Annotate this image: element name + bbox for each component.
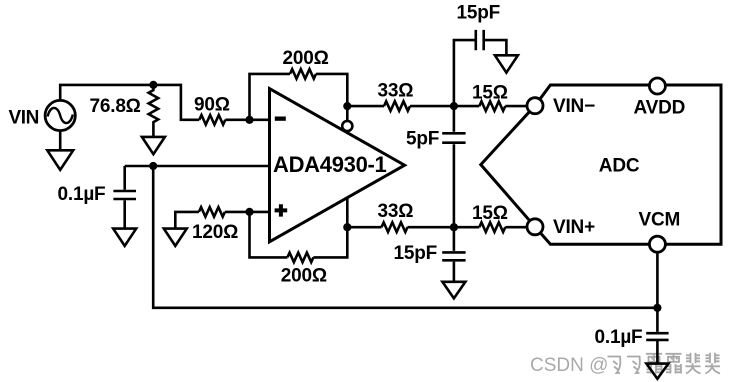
wire top feedback right leg [316, 74, 347, 106]
pin VIN+ circle [527, 219, 543, 235]
wire 15pF top branch right [485, 40, 506, 55]
wire top output rail [347, 105, 384, 108]
svg-text:15pF: 15pF [457, 2, 501, 23]
capacitor 0.1uF right [646, 308, 668, 364]
resistor 33ohm top [384, 101, 410, 111]
svg-text:15Ω: 15Ω [472, 203, 508, 224]
wire 33ohm bottom to node [408, 226, 454, 229]
svg-text:33Ω: 33Ω [378, 201, 414, 222]
wire 33ohm top to node [410, 105, 454, 108]
svg-text:5pF: 5pF [406, 129, 439, 150]
capacitor 0.1uF left [113, 166, 136, 229]
resistor 76.8ohm vertical [149, 85, 159, 137]
ADC block outline [481, 85, 721, 244]
node 5pF top junction [450, 102, 458, 110]
node inverting input junction [245, 116, 253, 124]
ground 0.1uF right [646, 364, 668, 379]
node junction above 76.8ohm [149, 81, 157, 89]
wire 120ohm to plus input [225, 211, 271, 214]
op-amp U1 triangle [270, 89, 405, 242]
svg-text:200Ω: 200Ω [281, 265, 327, 286]
svg-text:200Ω: 200Ω [283, 48, 329, 69]
svg-text:VIN−: VIN− [553, 96, 595, 117]
svg-text:120Ω: 120Ω [192, 222, 238, 243]
node 15pF bottom junction [450, 223, 458, 231]
svg-text:0.1µF: 0.1µF [595, 327, 643, 348]
pin AVDD circle [649, 78, 665, 94]
svg-text:VCM: VCM [639, 209, 681, 230]
capacitor 15pF top plates [476, 30, 484, 50]
wire VIN source top to 90ohm [60, 85, 199, 120]
svg-text:76.8Ω: 76.8Ω [90, 96, 141, 117]
resistor 90ohm [199, 115, 225, 125]
resistor 15ohm top [479, 101, 505, 111]
pin VCM circle [649, 236, 665, 252]
watermark glyph fei1 [608, 353, 721, 374]
wire bottom output rail [347, 226, 381, 229]
svg-text:ADA4930-1: ADA4930-1 [273, 152, 387, 177]
ground below 76.8ohm [142, 137, 165, 154]
wire 15pF top branch left [454, 40, 475, 106]
wire bottom feedback left leg [250, 212, 288, 258]
wire 15ohm bottom to VIN+ pin [505, 226, 528, 229]
svg-text:90Ω: 90Ω [194, 94, 230, 115]
svg-text:VIN: VIN [9, 108, 39, 129]
ground 120ohm [164, 229, 187, 246]
watermark glyph fei5 [686, 353, 701, 374]
svg-text:15Ω: 15Ω [472, 83, 508, 104]
output bubble on top slope [346, 106, 349, 121]
svg-text:ADC: ADC [599, 155, 640, 176]
svg-text:0.1µF: 0.1µF [58, 184, 106, 205]
pin VIN- circle [527, 98, 543, 114]
wire 15ohm bottom lead [454, 226, 479, 229]
resistor 200ohm bottom [287, 253, 313, 263]
node VCM junction [653, 304, 661, 312]
svg-text:15pF: 15pF [394, 243, 438, 264]
watermark glyph fei3 rain [646, 354, 662, 374]
watermark glyph fei4 rain [666, 354, 682, 374]
wire bottom output stub [346, 198, 349, 228]
node top output junction [343, 102, 351, 110]
ground 0.1uF left [113, 229, 136, 246]
op-amp minus input sign [275, 117, 286, 121]
wire 15ohm top lead [454, 105, 479, 108]
watermark glyph fei2 [627, 357, 640, 374]
wire top feedback left leg [250, 74, 291, 120]
wire source bottom [59, 131, 62, 151]
watermark glyph fei6 [705, 353, 720, 374]
resistor 120ohm [199, 207, 225, 217]
node VOCM junction [149, 162, 157, 170]
ground below VIN source [47, 150, 73, 170]
resistor 33ohm bottom [382, 222, 408, 232]
wire 15ohm top to VIN- pin [505, 105, 528, 108]
wire VCM return bottom [153, 166, 657, 308]
resistor 15ohm bottom [479, 222, 505, 232]
svg-text:33Ω: 33Ω [378, 80, 414, 101]
source VIN generator circle [45, 100, 75, 130]
sine wave inside source [48, 108, 73, 123]
capacitor 5pF [442, 106, 465, 227]
ground 15pF top [495, 55, 518, 72]
wire 90ohm to inverting input [225, 119, 270, 122]
resistor 200ohm top [290, 69, 316, 79]
node bottom output junction [343, 223, 351, 231]
capacitor 15pF bottom [442, 227, 465, 282]
svg-text:CSDN @: CSDN @ [530, 355, 608, 376]
svg-text:VIN+: VIN+ [553, 217, 595, 238]
svg-text:AVDD: AVDD [634, 97, 686, 118]
wire bottom feedback right leg [313, 227, 347, 257]
ground 15pF bottom [442, 282, 465, 299]
node plus input junction [245, 208, 253, 216]
wire VOCM input [125, 165, 271, 168]
wire 120ohm ground leg [175, 212, 199, 229]
op-amp plus input sign [275, 204, 288, 216]
